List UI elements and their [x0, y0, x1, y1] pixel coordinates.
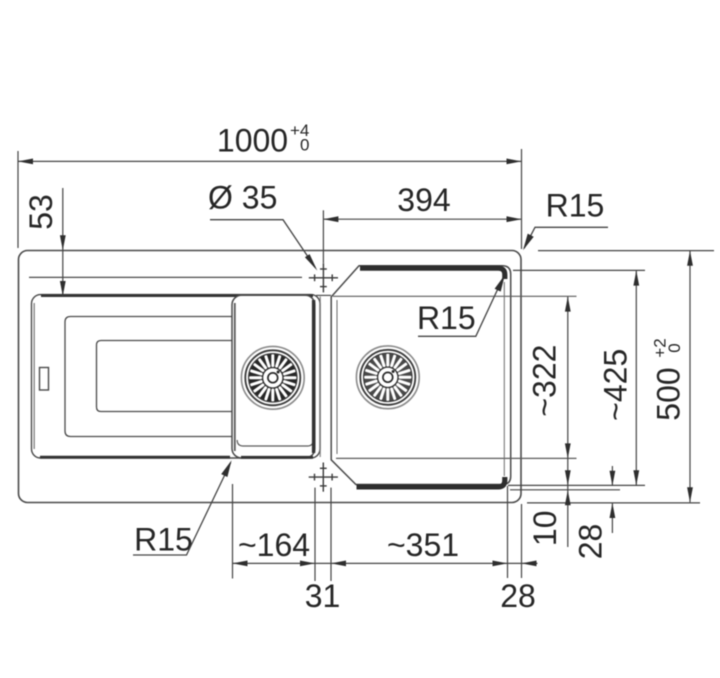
drainboard slot on left rim	[40, 368, 49, 391]
svg-text:~351: ~351	[387, 527, 459, 563]
svg-text:R15: R15	[417, 300, 476, 336]
svg-text:10: 10	[527, 511, 563, 547]
bottom extension lines	[233, 484, 522, 581]
dimension ~351	[331, 561, 346, 567]
svg-text:0: 0	[300, 136, 309, 155]
drainboard left inner double line	[33, 303, 35, 449]
main bowl dark top edge band	[360, 268, 505, 279]
dimension 394	[322, 210, 324, 263]
dimension 10	[565, 470, 571, 485]
main bowl inner right line	[503, 282, 505, 476]
drainboard ridge rectangle 1	[65, 317, 233, 437]
svg-text:394: 394	[397, 182, 450, 218]
extension stubs right side	[508, 251, 714, 503]
dimension 1000 +4/0 top width	[18, 149, 522, 249]
drainboard ridge rectangle 2	[97, 341, 234, 412]
drill hole center mark top faucet hole	[309, 263, 338, 292]
drill hole center mark bottom faucet hole	[309, 463, 338, 492]
svg-text:R15: R15	[134, 522, 193, 558]
svg-text:0: 0	[665, 343, 684, 352]
svg-text:500: 500	[651, 367, 687, 420]
main bowl inner left line	[336, 300, 338, 454]
divider top edge line	[316, 294, 331, 296]
middle bowl inner floor bottom line	[237, 440, 313, 446]
dimension ~164	[233, 561, 248, 567]
main bowl floor bottom line	[336, 457, 577, 459]
main bowl dark bottom edge band	[357, 477, 505, 487]
drain strainer middle bowl	[241, 346, 304, 409]
svg-text:R15: R15	[546, 188, 605, 224]
svg-text:~164: ~164	[238, 527, 310, 563]
svg-text:28: 28	[572, 524, 608, 560]
svg-text:~425: ~425	[598, 349, 634, 421]
dimension 53 left	[62, 188, 64, 296]
rim inner line top	[29, 276, 302, 278]
dimension ~425	[635, 271, 637, 486]
middle bowl dark bottom edge	[241, 456, 313, 459]
dimension 500 +2/0	[689, 251, 691, 502]
bottom dimension line	[233, 562, 538, 564]
middle bowl inner left shading	[234, 303, 236, 451]
svg-text:~322: ~322	[527, 345, 563, 417]
svg-text:Ø 35: Ø 35	[208, 180, 277, 216]
sink outer outline	[19, 251, 522, 503]
main bowl floor top line	[333, 295, 577, 297]
svg-text:1000: 1000	[217, 123, 288, 159]
main bowl outline	[331, 266, 511, 485]
dimension 28 right	[611, 466, 613, 485]
svg-text:31: 31	[305, 578, 341, 614]
svg-text:28: 28	[500, 578, 536, 614]
drain strainer main bowl	[356, 346, 419, 409]
divider right edge line	[319, 297, 321, 458]
dimension ~322	[567, 297, 569, 547]
drainboard outer outline	[32, 295, 321, 458]
middle bowl dark right edge	[312, 300, 315, 453]
svg-text:53: 53	[23, 194, 59, 230]
middle bowl outline	[232, 295, 315, 458]
drainboard dark top edge	[41, 294, 313, 297]
drainboard dark bottom edge	[40, 456, 230, 459]
dimension 28 bottom	[522, 561, 537, 567]
